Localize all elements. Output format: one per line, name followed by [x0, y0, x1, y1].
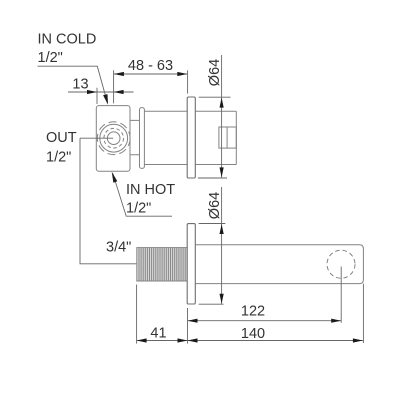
- threaded pipe outline: [137, 248, 187, 281]
- svg-text:OUT: OUT: [46, 130, 77, 146]
- leader arrow IN COLD: [103, 94, 108, 105]
- dim dia64 lower line: [221, 187, 223, 304]
- svg-text:1/2": 1/2": [126, 201, 151, 217]
- leader arrow IN HOT: [112, 172, 118, 183]
- mounting flange: [140, 108, 145, 169]
- dim 13 line: [68, 91, 134, 93]
- connection line OUT to spout pipe: [80, 138, 136, 264]
- dim dia64 lower extension lines: [199, 224, 226, 305]
- valve body block: [96, 106, 130, 172]
- svg-text:1/2": 1/2": [46, 150, 71, 166]
- dim dia64 upper extension lines: [198, 97, 231, 178]
- outlet thread circle dashed: [104, 128, 124, 148]
- neck between body and mounting flange: [130, 120, 140, 154]
- dim 13 extension lines: [97, 70, 114, 104]
- outer dashed circle: [97, 122, 130, 155]
- svg-text:3/4": 3/4": [106, 240, 131, 256]
- spout bar: [195, 245, 363, 284]
- svg-text:48 - 63: 48 - 63: [128, 58, 173, 74]
- dim dia64 lower arrows: [220, 224, 224, 234]
- dim 122 line: [188, 320, 342, 322]
- dim 140 arrows: [188, 338, 198, 342]
- dim 41 extension line: [136, 285, 138, 344]
- svg-text:41: 41: [150, 325, 166, 341]
- dim 122 arrows: [188, 319, 198, 323]
- dim 48-63 extension line: [187, 70, 189, 93]
- leader IN HOT: [113, 174, 172, 217]
- cartridge box divider: [226, 127, 228, 148]
- dim 41/140 shared line: [137, 340, 363, 342]
- dim dia64 upper arrows: [220, 98, 224, 108]
- dim 48-63 line: [114, 73, 187, 75]
- svg-text:13: 13: [72, 76, 88, 92]
- aerator dashed circle: [327, 250, 355, 278]
- svg-text:IN HOT: IN HOT: [126, 182, 175, 198]
- outlet circle inner: [107, 132, 120, 145]
- svg-text:140: 140: [241, 326, 265, 342]
- svg-text:IN COLD: IN COLD: [38, 32, 97, 48]
- svg-text:1/2": 1/2": [38, 50, 63, 66]
- svg-text:122: 122: [241, 303, 265, 319]
- svg-text:Ø64: Ø64: [207, 192, 223, 219]
- cartridge box: [219, 127, 236, 148]
- leader IN COLD: [38, 66, 108, 103]
- rear valve cylinder: [144, 111, 236, 164]
- dim 48-63 arrows: [114, 72, 124, 76]
- svg-text:Ø64: Ø64: [207, 59, 223, 86]
- dim 13 arrows: [87, 90, 97, 94]
- threaded pipe fill: [137, 248, 187, 280]
- boss circle: [100, 124, 128, 152]
- wall plate lower: [187, 224, 195, 304]
- dim 122 extension line from aerator center: [340, 267, 342, 323]
- dim 140 extension line at wall: [187, 308, 189, 344]
- thread hatch lines: [139, 248, 185, 280]
- dim dia64 upper line: [221, 55, 223, 177]
- dim 41 arrows: [137, 338, 147, 342]
- wall plate upper: [187, 97, 195, 178]
- spout right edge extension: [362, 284, 364, 343]
- leader OUT to port center: [80, 137, 113, 139]
